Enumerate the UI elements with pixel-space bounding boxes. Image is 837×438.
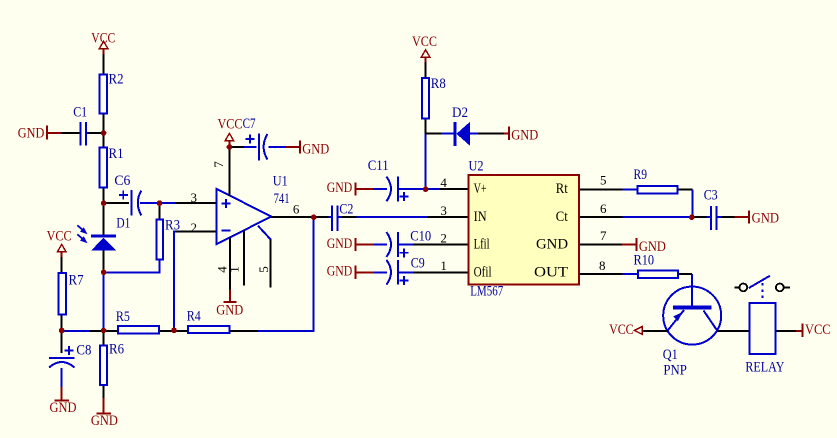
power GND (op-amp pin 4) — [216, 290, 243, 319]
power GND (left of C1) — [18, 126, 62, 142]
resistor R6 — [100, 331, 124, 385]
resistor R7 — [58, 273, 84, 315]
capacitor C11 — [368, 158, 409, 202]
svg-text:Ct: Ct — [556, 209, 569, 225]
wire node C to op-amp pin 3 — [160, 202, 176, 204]
power VCC (right of relay) — [796, 322, 831, 338]
wire node H to op-amp pin 7 — [228, 147, 230, 196]
svg-text:2: 2 — [440, 231, 447, 246]
power VCC (above R7) — [47, 228, 72, 257]
wire R1 to node B — [103, 189, 105, 204]
power GND (right of C7) — [286, 140, 329, 157]
power VCC (left of Q1) — [609, 322, 644, 338]
capacitor C7 — [243, 116, 268, 161]
op-amp output pin 6 — [271, 216, 314, 218]
resistor R5 — [116, 309, 159, 334]
wire node B to D1 — [103, 203, 105, 234]
svg-text:D2: D2 — [452, 105, 468, 121]
power GND (C11 row) — [327, 180, 374, 196]
wire node B to C6 — [104, 202, 129, 204]
svg-text:8: 8 — [599, 258, 606, 273]
svg-text:R7: R7 — [69, 273, 84, 289]
resistor R8 — [422, 76, 446, 118]
node E junction — [59, 328, 65, 334]
wire node H to C7 — [229, 146, 244, 148]
resistor R10 — [634, 252, 678, 277]
svg-text:741: 741 — [274, 191, 290, 207]
wire node D to rail — [103, 272, 105, 331]
svg-text:C11: C11 — [368, 158, 389, 174]
node F junction — [101, 328, 107, 334]
svg-text:5: 5 — [600, 173, 607, 188]
svg-text:3: 3 — [440, 203, 447, 218]
svg-text:R9: R9 — [634, 167, 648, 183]
wire C7 to GND — [269, 146, 287, 148]
U2 pin 8 — [580, 273, 623, 275]
svg-text:PNP: PNP — [663, 362, 687, 378]
resistor R3 — [156, 217, 180, 259]
wire R8 to D2 corner — [425, 119, 427, 133]
capacitor C6 — [114, 173, 141, 216]
wire node A to R1 — [103, 133, 105, 147]
wire C3 to GND — [722, 216, 735, 218]
svg-text:GND: GND — [50, 400, 77, 416]
svg-text:RELAY: RELAY — [745, 360, 784, 376]
wire R7 to node E — [61, 316, 63, 332]
power GND (below C8) — [50, 387, 77, 416]
power GND (below R6) — [91, 386, 118, 429]
capacitor C3 — [692, 187, 722, 230]
power GND (C9 row) — [327, 264, 374, 280]
node D junction — [101, 270, 107, 276]
svg-text:7: 7 — [600, 228, 607, 243]
U2 pin 6 — [580, 216, 623, 218]
svg-text:R1: R1 — [109, 146, 124, 162]
wire Q1 collector to relay — [718, 330, 749, 332]
capacitor C2 — [314, 202, 354, 231]
svg-text:Q1: Q1 — [663, 347, 678, 363]
relay coil — [745, 303, 784, 376]
wire pin6 to node K — [623, 216, 692, 218]
svg-text:1: 1 — [440, 258, 447, 273]
power GND (right of D2) — [504, 127, 538, 144]
node K junction — [689, 214, 695, 220]
IC U2 LM567 body — [468, 159, 578, 300]
capacitor C9 — [374, 255, 425, 285]
wire corner to node J — [425, 133, 427, 189]
svg-text:5: 5 — [256, 266, 271, 273]
svg-text:VCC: VCC — [47, 228, 72, 244]
power VCC (top left) — [91, 30, 115, 54]
wire VCC to R8 — [425, 62, 427, 77]
U2 pin 7 — [580, 244, 622, 246]
node A junction — [101, 130, 107, 136]
svg-text:Ofil: Ofil — [474, 264, 492, 280]
svg-text:D1: D1 — [116, 216, 130, 232]
resistor R9 — [634, 167, 678, 193]
svg-text:7: 7 — [211, 161, 226, 168]
svg-text:GND: GND — [327, 180, 353, 196]
svg-text:R2: R2 — [109, 72, 124, 88]
photodiode D1 — [77, 216, 130, 251]
svg-text:C9: C9 — [411, 255, 425, 271]
svg-text:VCC: VCC — [412, 34, 437, 50]
wire Q1 emitter — [644, 330, 668, 332]
node G junction — [171, 328, 177, 334]
wire node E to node F — [62, 330, 90, 332]
svg-text:R4: R4 — [187, 309, 201, 325]
power GND (C10 row) — [327, 236, 374, 252]
node I junction — [311, 214, 317, 220]
svg-text:VCC: VCC — [609, 322, 634, 338]
svg-text:R5: R5 — [116, 309, 130, 325]
resistor R2 — [100, 72, 124, 114]
svg-text:C2: C2 — [339, 202, 353, 218]
op-amp pin 4 — [229, 237, 231, 289]
svg-text:6: 6 — [600, 201, 607, 216]
resistor R1 — [100, 146, 124, 188]
svg-text:GND: GND — [91, 413, 118, 429]
svg-text:U2: U2 — [469, 159, 484, 175]
svg-text:VCC: VCC — [91, 30, 115, 46]
power GND (right of C3) — [735, 210, 780, 226]
svg-text:LM567: LM567 — [470, 284, 503, 300]
wire C2 to U2 pin 3 — [342, 216, 357, 218]
svg-text:C7: C7 — [243, 116, 256, 132]
wire node G to op-amp pin 2 — [174, 232, 180, 331]
capacitor C1 — [73, 104, 88, 145]
wire relay to VCC — [777, 330, 796, 332]
wire R5 to node G — [160, 330, 187, 332]
svg-text:GND: GND — [302, 142, 329, 158]
relay switch contacts — [735, 276, 790, 299]
svg-text:VCC: VCC — [218, 117, 243, 133]
svg-text:C3: C3 — [704, 187, 718, 203]
svg-text:R8: R8 — [431, 76, 446, 92]
svg-text:GND: GND — [327, 264, 353, 280]
svg-text:VCC: VCC — [805, 322, 831, 338]
svg-text:2: 2 — [191, 220, 198, 235]
svg-text:OUT: OUT — [534, 264, 568, 280]
wire node C to R3 — [159, 203, 161, 218]
svg-text:C10: C10 — [410, 229, 431, 245]
svg-text:R10: R10 — [634, 252, 655, 268]
svg-text:U1: U1 — [273, 173, 288, 189]
wire C6 to node C — [140, 202, 160, 204]
svg-text:C8: C8 — [76, 343, 91, 359]
wire R4 to feedback corner — [231, 330, 258, 332]
svg-text:GND: GND — [18, 126, 45, 142]
wire VCC to R2 — [103, 54, 105, 73]
svg-text:GND: GND — [216, 302, 243, 318]
svg-text:IN: IN — [474, 209, 487, 225]
U2 pin 5 — [580, 188, 623, 190]
node C junction — [157, 200, 163, 206]
power GND (U2 pin 7) — [622, 238, 666, 255]
svg-text:3: 3 — [191, 190, 198, 205]
diode D2 — [426, 105, 478, 146]
transistor Q1 — [663, 287, 721, 379]
wire node J to U2 pin 4 — [440, 188, 467, 190]
capacitor C8 — [49, 331, 91, 387]
wire pin5 to R9 — [623, 188, 637, 190]
node J junction — [423, 186, 429, 192]
svg-text:4: 4 — [440, 175, 447, 190]
wire D1 to node D — [103, 251, 105, 273]
wire C10 to U2 pin 2 — [398, 244, 413, 246]
power VCC (op-amp pin 7) — [218, 117, 243, 147]
svg-text:V+: V+ — [474, 181, 487, 197]
wire R9 to node K — [679, 188, 693, 190]
op-amp pin 1 (no connect) — [243, 230, 245, 285]
wire GND to C1 — [62, 132, 79, 134]
wire R2 to node A — [103, 115, 105, 134]
svg-text:1: 1 — [227, 266, 242, 273]
wire VCC to R7 — [61, 257, 63, 272]
wire R3 to node D — [104, 260, 160, 272]
svg-text:Rt: Rt — [556, 181, 569, 197]
svg-text:GND: GND — [511, 128, 538, 144]
svg-text:Lfil: Lfil — [474, 237, 490, 253]
wire C1 to node A — [89, 132, 104, 134]
svg-text:C1: C1 — [73, 104, 87, 120]
resistor R4 — [187, 309, 230, 333]
wire R10 to Q1 base — [679, 273, 692, 275]
svg-text:GND: GND — [536, 237, 568, 253]
node B junction — [101, 200, 107, 206]
svg-text:6: 6 — [293, 202, 300, 217]
wire D2 to GND — [478, 132, 504, 134]
power VCC (above R8) — [412, 34, 437, 62]
svg-text:GND: GND — [752, 211, 780, 227]
capacitor C10 — [374, 229, 431, 258]
op-amp U1 741 — [216, 173, 289, 244]
op-amp pin 5 (no connect) — [258, 226, 271, 288]
node H junction — [227, 144, 233, 150]
wire pin8 to R10 — [623, 273, 637, 275]
wire C11 to node J — [398, 188, 440, 190]
wire C9 to U2 pin 1 — [398, 271, 413, 273]
svg-text:R6: R6 — [109, 341, 124, 357]
svg-text:GND: GND — [327, 236, 353, 252]
svg-text:C6: C6 — [114, 173, 130, 189]
